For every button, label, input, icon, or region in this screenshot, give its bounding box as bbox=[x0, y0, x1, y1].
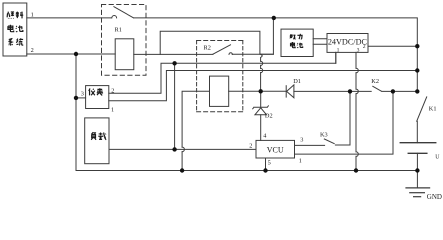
wire: D1 to K2 left contact (hop over 24VDC pin3 vertical) bbox=[294, 90, 371, 92]
vertical: coil-net from cluster down to R2 coil right node (with jog over y54.4 and hops) bbox=[261, 54, 263, 91]
wire: 24VDC/DC pin 1 stub bbox=[335, 52, 337, 63]
load box 负载 bbox=[85, 118, 109, 164]
hop bump over wire y70.5 bbox=[261, 68, 263, 72]
junction: fuel cell pin2 node bbox=[74, 52, 78, 56]
svg-text:GND: GND bbox=[427, 193, 442, 201]
junction: R2 coil right / D2 node bbox=[259, 89, 263, 93]
fuel cell system box 燃料电池系统 bbox=[3, 3, 27, 56]
R2 coil dashed bottom bbox=[197, 111, 243, 113]
wire: R2 coil right terminal to D1 anode (through node x=260.7) bbox=[229, 90, 287, 92]
switch K1 blade bbox=[417, 97, 427, 121]
wire: fuel cell pin 2 to R1 coil left terminal bbox=[27, 53, 115, 55]
24VDC/DC converter box bbox=[327, 34, 368, 53]
wire: R2 coil left terminal to vertical x=182 down to bottom bus bbox=[182, 91, 209, 170]
wires: power battery to 24VDC/DC bbox=[313, 39, 327, 45]
svg-text:5: 5 bbox=[268, 159, 271, 166]
hop of x=182 vertical over load wire bbox=[182, 147, 184, 152]
text 动力 line of power battery box bbox=[290, 35, 296, 39]
svg-text:4: 4 bbox=[263, 133, 267, 140]
svg-text:24VDC/DC: 24VDC/DC bbox=[328, 37, 368, 46]
R2 switch fixed contact bump bbox=[229, 53, 232, 55]
battery U bottom plate bbox=[408, 152, 427, 154]
svg-text:1: 1 bbox=[31, 11, 34, 18]
svg-text:VCU: VCU bbox=[267, 146, 284, 155]
diode D1 triangle bbox=[287, 85, 294, 98]
junction: K2/K1 node on right bus bbox=[415, 89, 419, 93]
wire: top bus from R1 switch right contact to right-side corner, down to 24VDC/DC pin2 node bbox=[134, 18, 418, 92]
power battery box 动力电池 bbox=[281, 29, 313, 56]
svg-text:D1: D1 bbox=[293, 78, 301, 85]
zener D2 cathode bar bbox=[253, 106, 269, 109]
R2 mechanical link left (dashed) bbox=[196, 41, 198, 112]
VCU box bbox=[256, 140, 295, 158]
R2 mechanical link right (dashed) bbox=[242, 41, 244, 112]
svg-text:1: 1 bbox=[337, 47, 340, 53]
switch K2 blade bbox=[373, 86, 382, 91]
svg-text:R2: R2 bbox=[204, 44, 211, 51]
junction: instrument pin3 node bbox=[74, 96, 78, 100]
wire: fuel cell pin 1 to R1 switch left contact bbox=[27, 17, 112, 19]
svg-text:1: 1 bbox=[299, 157, 302, 164]
R1 switch blade bbox=[114, 7, 133, 18]
instrument box 仪表 bbox=[86, 86, 109, 109]
wire: node to D2 cathode from coil node bbox=[260, 91, 262, 107]
svg-text:2: 2 bbox=[111, 87, 114, 94]
wire: instrument pin1 up and right to right bus (hops at x=260.6 and x=356) bbox=[109, 71, 418, 101]
wire: D2 anode down to VCU pin 4 bbox=[260, 115, 262, 141]
svg-text:D2: D2 bbox=[265, 113, 273, 120]
junction: K3 branch on D1 wire bbox=[348, 89, 352, 93]
wire: battery negative to bottom bus node bbox=[416, 153, 418, 170]
svg-text:3: 3 bbox=[81, 90, 84, 97]
wire: VCU pin 3 to K3 left contact bbox=[295, 144, 325, 146]
wire: load to VCU pin 2 (hop over x=182 vertical) bbox=[109, 148, 256, 150]
relay R2 dashed bracket (contact group) bbox=[197, 40, 243, 42]
wire: branch from R1 coil wire up and across to x=260/273 cluster bbox=[160, 18, 273, 55]
junction: VCU pin5 on bottom bus bbox=[263, 168, 267, 172]
text 燃料 line of fuel cell box bbox=[7, 12, 14, 19]
hop of pin3 vertical over instrument pin1 wire bbox=[356, 68, 358, 73]
text 系统 line of fuel cell box bbox=[9, 38, 13, 45]
junction: load wire node bbox=[172, 147, 176, 151]
ground symbol GND bbox=[406, 187, 430, 189]
junction: top bus branch bbox=[272, 16, 276, 20]
wire: K3 right contact up to D1/K2 node bbox=[335, 91, 350, 145]
wire: R1 coil right terminal to R2 switch left contact bbox=[134, 53, 213, 55]
hop of pin3 vertical over D1 wire bbox=[356, 89, 358, 94]
zener D2 triangle bbox=[255, 108, 267, 115]
svg-text:2: 2 bbox=[249, 143, 252, 150]
text 负载 of load box bbox=[91, 132, 96, 140]
diode D1 cathode bar bbox=[285, 86, 287, 97]
R2 switch blade bbox=[213, 45, 231, 54]
svg-text:U: U bbox=[435, 155, 440, 161]
svg-text:R1: R1 bbox=[115, 27, 122, 34]
battery U top plate bbox=[400, 142, 436, 144]
svg-text:3: 3 bbox=[300, 137, 303, 144]
text 仪表 of instrument box bbox=[89, 88, 95, 95]
R1 switch fixed contact bump bbox=[112, 16, 117, 18]
svg-text:3: 3 bbox=[357, 47, 360, 53]
svg-text:1: 1 bbox=[111, 106, 114, 113]
wire: instrument pin 3 to left vertical bbox=[76, 97, 86, 99]
switch K3 blade bbox=[324, 139, 334, 144]
bottom bus wire bbox=[76, 170, 417, 172]
junction: instrument pin1 wire on right bus bbox=[415, 68, 419, 72]
wire: 24VDC/DC pin 3 down to bottom bus bbox=[355, 52, 357, 170]
junction: VCU pin1 branch bbox=[391, 89, 395, 93]
wire: 24VDC/DC pin 2 to right bus bbox=[368, 45, 417, 47]
junction: R2 coil left on bottom bus bbox=[180, 168, 184, 172]
wire: VCU pin 1 right to vertical x=393 up to K2 node (hop over 24VDC pin3 vertical) bbox=[295, 91, 394, 154]
hop bump over wire y63.3 bbox=[261, 61, 263, 65]
wire: R2 switch right contact to vertical x=273 bbox=[232, 53, 273, 55]
R1 coil bbox=[115, 39, 134, 70]
wire: instrument pin2 up and right to 24VDC/DC pin 1 (with hop over x=260.6) bbox=[109, 52, 336, 93]
svg-text:K3: K3 bbox=[320, 132, 328, 139]
wire: K2 right contact to right bus bbox=[382, 90, 417, 92]
hop of pin3 vertical over VCU pin1 wire bbox=[356, 152, 358, 157]
junction: 24VDC pin3 on bottom bus bbox=[354, 168, 358, 172]
wire: K1 bottom to battery top plate bbox=[416, 121, 418, 143]
text 电池 line of power battery box bbox=[291, 42, 296, 48]
relay R1 dashed enclosure bbox=[102, 5, 147, 76]
svg-text:2: 2 bbox=[31, 47, 34, 54]
wire: bottom bus node down to ground bbox=[416, 171, 418, 188]
svg-text:K2: K2 bbox=[371, 78, 379, 85]
wire: VCU pin 5 stub to bottom bus bbox=[265, 158, 267, 171]
junction: 24VDC pin2 on right bus bbox=[415, 44, 419, 48]
junction: VCU pin2 net top bbox=[172, 61, 176, 65]
text 电池 line of fuel cell box bbox=[8, 25, 14, 32]
junction: battery negative / ground node bbox=[415, 168, 419, 172]
R2 coil bbox=[210, 76, 229, 106]
vertical: fuel cell pin2 node down to bottom bus bbox=[75, 54, 77, 171]
svg-text:K1: K1 bbox=[429, 105, 437, 112]
vertical: VCU pin2 net from wire y63 down to load wire bbox=[174, 63, 176, 149]
